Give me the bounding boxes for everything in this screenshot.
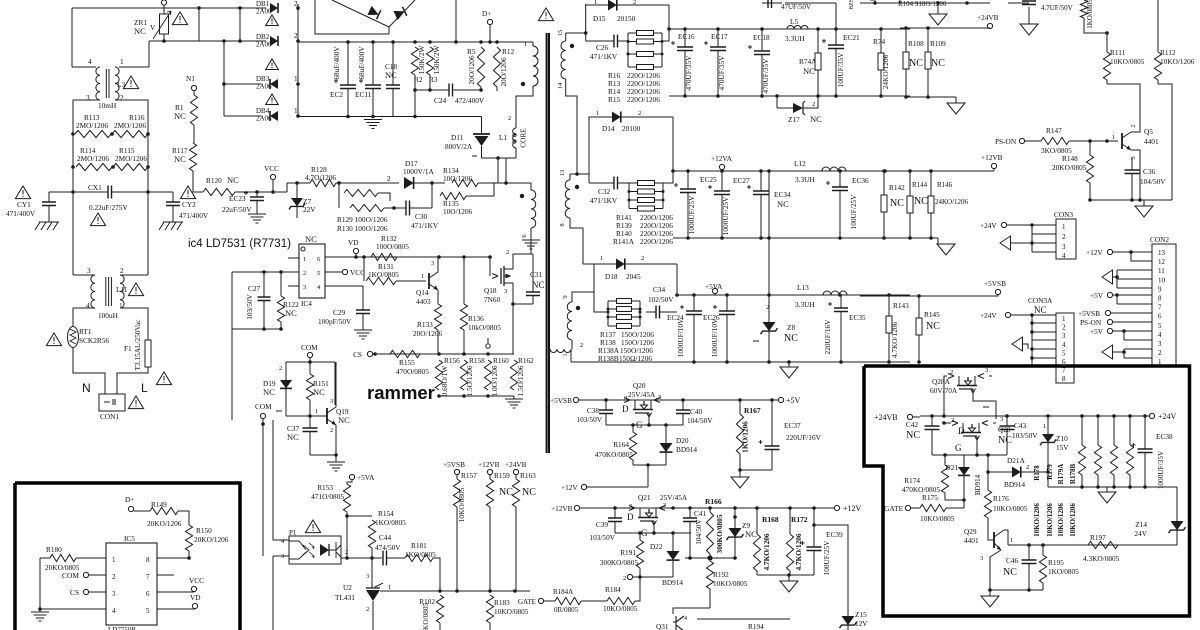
svg-text:Q28A: Q28A xyxy=(932,377,951,386)
svg-text:1000UF/25V: 1000UF/25V xyxy=(721,196,730,235)
svg-text:1: 1 xyxy=(421,273,424,280)
ground top right xyxy=(937,3,939,14)
svg-text:8: 8 xyxy=(146,556,150,564)
svg-text:2MO/1206: 2MO/1206 xyxy=(114,121,146,130)
svg-text:R112: R112 xyxy=(1160,48,1176,57)
svg-text:1: 1 xyxy=(120,57,124,66)
svg-text:+24V: +24V xyxy=(980,221,997,230)
svg-text:3.3UH: 3.3UH xyxy=(785,34,805,43)
connector CON1 xyxy=(99,394,125,411)
wire xyxy=(1090,199,1172,201)
svg-text:68uF/400V: 68uF/400V xyxy=(357,46,366,80)
svg-text:N: N xyxy=(82,381,91,395)
svg-text:2A06: 2A06 xyxy=(256,8,272,16)
svg-text:PS-ON: PS-ON xyxy=(1080,318,1102,327)
svg-text:10KO/1206: 10KO/1206 xyxy=(1069,503,1077,537)
svg-text:BD914: BD914 xyxy=(974,474,982,495)
svg-text:L: L xyxy=(141,381,148,395)
svg-text:800V/2A: 800V/2A xyxy=(445,142,473,151)
wire COM bottom xyxy=(286,415,310,417)
wire DB output bus xyxy=(297,4,299,116)
svg-text:EC16: EC16 xyxy=(678,32,695,41)
wire xyxy=(505,158,507,183)
svg-text:13: 13 xyxy=(1158,249,1166,257)
svg-text:NC: NC xyxy=(305,234,317,244)
svg-text:CON3: CON3 xyxy=(1054,210,1073,219)
svg-text:R146: R146 xyxy=(937,181,953,189)
ground Q29 xyxy=(989,590,991,596)
warning triangle P1 xyxy=(305,520,320,533)
svg-text:471/400V: 471/400V xyxy=(179,211,209,220)
svg-text:20100: 20100 xyxy=(622,124,641,133)
svg-text:20KO/1206: 20KO/1206 xyxy=(194,535,229,544)
resistor R129 xyxy=(338,183,340,193)
wire xyxy=(1122,329,1126,333)
wire xyxy=(900,27,990,29)
svg-text:1: 1 xyxy=(562,353,569,356)
svg-text:1: 1 xyxy=(596,110,599,117)
svg-text:3: 3 xyxy=(980,555,983,562)
svg-text:Q31: Q31 xyxy=(656,622,669,630)
svg-text:R191: R191 xyxy=(620,548,636,557)
wire CON3 feed xyxy=(1007,224,1056,226)
wire +5VSB feed xyxy=(860,295,994,297)
resistor R3 xyxy=(426,47,433,75)
svg-text:3: 3 xyxy=(504,288,507,295)
svg-text:EC37: EC37 xyxy=(784,421,801,430)
svg-text:R148: R148 xyxy=(1062,154,1078,163)
svg-text:L5: L5 xyxy=(790,17,798,26)
svg-text:L13: L13 xyxy=(797,283,809,292)
svg-text:R149: R149 xyxy=(151,500,167,509)
svg-text:R15: R15 xyxy=(608,95,621,104)
svg-text:470KO/0805: 470KO/0805 xyxy=(595,450,633,459)
wire +5V rectified rail xyxy=(677,294,910,296)
wire Q5 collector xyxy=(1107,84,1140,126)
wire left drop to L3 xyxy=(71,8,73,67)
wire xyxy=(1113,294,1152,296)
wire Q21 gate rail xyxy=(615,532,691,534)
svg-text:1.5O/1206: 1.5O/1206 xyxy=(465,365,474,396)
svg-text:4403: 4403 xyxy=(416,297,431,306)
svg-text:2: 2 xyxy=(120,266,124,275)
svg-text:NC: NC xyxy=(532,280,545,290)
svg-text:24V: 24V xyxy=(1134,529,1147,538)
svg-text:EC36: EC36 xyxy=(852,176,869,185)
wire R112 right leg xyxy=(1158,84,1172,200)
svg-text:R184: R184 xyxy=(605,585,621,594)
ground CY2 xyxy=(159,222,183,230)
svg-text:15V: 15V xyxy=(1056,443,1069,452)
dot L1 xyxy=(521,82,525,86)
svg-text:4.7UF/50V: 4.7UF/50V xyxy=(1041,4,1073,12)
wire xyxy=(640,576,673,578)
resistor stack R137 R138 R138A R138B xyxy=(607,301,609,326)
arrow CON3A xyxy=(1012,337,1023,351)
svg-text:+24VB: +24VB xyxy=(977,13,999,22)
wire +12V rectified rail xyxy=(673,170,910,172)
svg-text:R109: R109 xyxy=(930,39,946,48)
svg-text:1: 1 xyxy=(112,556,116,564)
svg-text:R176: R176 xyxy=(993,494,1009,503)
svg-text:3: 3 xyxy=(1000,416,1003,423)
svg-text:TL431: TL431 xyxy=(335,593,355,602)
svg-text:474/50V: 474/50V xyxy=(375,543,401,552)
resistor stack R16 R13 R14 R15 xyxy=(627,33,629,67)
svg-text:2: 2 xyxy=(1158,349,1162,357)
svg-text:470UF/35V: 470UF/35V xyxy=(684,55,693,91)
svg-text:471/1KV: 471/1KV xyxy=(411,221,439,230)
wire +12VB rail xyxy=(580,507,834,509)
svg-text:Q14: Q14 xyxy=(416,288,429,297)
svg-text:1KO/0805: 1KO/0805 xyxy=(375,518,406,527)
svg-text:EC23: EC23 xyxy=(229,194,246,203)
wire to CON1 xyxy=(73,347,105,394)
wire DC bus right corner xyxy=(455,0,457,42)
svg-text:104/50V: 104/50V xyxy=(1140,177,1166,186)
wire COM bus down xyxy=(262,424,264,556)
wire row3 lower rail xyxy=(571,361,910,363)
wire +12VB right rail xyxy=(860,170,994,172)
resistor R157 xyxy=(456,475,458,479)
wire IC4 pin3 stub xyxy=(288,285,299,287)
svg-text:+5VA: +5VA xyxy=(357,473,375,482)
svg-text:3: 3 xyxy=(985,367,988,374)
svg-text:R147: R147 xyxy=(1046,126,1062,135)
wire xyxy=(346,516,348,558)
svg-text:7: 7 xyxy=(146,573,150,581)
warning triangle top xyxy=(538,8,553,21)
svg-text:150K/2W: 150K/2W xyxy=(432,45,441,74)
svg-text:NC: NC xyxy=(263,387,275,397)
Y-capacitor CY2 xyxy=(180,186,195,199)
svg-text:7N60: 7N60 xyxy=(484,295,501,304)
ground cap xyxy=(1028,7,1030,24)
svg-text:C26: C26 xyxy=(596,43,609,52)
svg-text:5: 5 xyxy=(317,270,320,277)
svg-text:6: 6 xyxy=(1158,313,1162,321)
mosfet Q18 xyxy=(489,257,491,276)
resistor R135 xyxy=(431,183,433,196)
svg-text:CX1: CX1 xyxy=(88,183,102,192)
svg-text:3: 3 xyxy=(112,590,116,598)
svg-text:47UF/50V: 47UF/50V xyxy=(781,3,811,11)
svg-text:20O/1206: 20O/1206 xyxy=(467,55,476,85)
wire Q20 gate rail xyxy=(606,424,683,426)
svg-text:R104 910O/1206: R104 910O/1206 xyxy=(898,0,947,8)
svg-text:10KO/1206: 10KO/1206 xyxy=(1057,503,1065,537)
wire top AC rail xyxy=(72,7,266,9)
svg-text:4.7KO/1206: 4.7KO/1206 xyxy=(794,533,803,570)
wire Q18 source xyxy=(512,283,514,354)
svg-text:+5VSB: +5VSB xyxy=(1078,309,1100,318)
common-mode choke L3 xyxy=(96,67,100,100)
node +24V box xyxy=(1149,413,1154,418)
svg-text:100pF/50V: 100pF/50V xyxy=(318,317,352,326)
svg-text:2: 2 xyxy=(366,606,369,613)
svg-text:NC: NC xyxy=(285,308,297,318)
svg-text:D22: D22 xyxy=(650,542,663,551)
svg-text:R130 100O/1206: R130 100O/1206 xyxy=(337,224,388,233)
svg-text:1KO/0805: 1KO/0805 xyxy=(1048,567,1079,576)
svg-text:CORE: CORE xyxy=(519,128,528,148)
svg-text:Q21: Q21 xyxy=(638,493,651,502)
svg-text:VCC: VCC xyxy=(189,576,204,585)
svg-text:+12VB: +12VB xyxy=(478,460,500,469)
svg-text:N1: N1 xyxy=(186,74,195,83)
svg-text:CON1: CON1 xyxy=(100,412,119,421)
svg-text:100UF/35V: 100UF/35V xyxy=(836,52,845,88)
wire D21 R176 xyxy=(987,455,989,490)
wire xyxy=(860,2,990,4)
svg-text:2MO/1206: 2MO/1206 xyxy=(76,121,108,130)
svg-text:R145: R145 xyxy=(924,310,940,319)
svg-text:20150: 20150 xyxy=(617,14,636,23)
svg-text:D+: D+ xyxy=(482,9,491,18)
svg-text:Z14: Z14 xyxy=(1135,520,1147,529)
wire xyxy=(232,328,281,330)
svg-text:7: 7 xyxy=(1062,367,1066,375)
svg-text:NC: NC xyxy=(385,70,397,80)
wire xyxy=(785,2,836,4)
svg-text:4: 4 xyxy=(1062,341,1066,349)
wire xyxy=(676,264,678,295)
svg-text:LD7750R: LD7750R xyxy=(108,626,136,630)
warning triangle DB3 xyxy=(266,59,279,70)
svg-text:C34: C34 xyxy=(653,285,666,294)
svg-text:D21: D21 xyxy=(945,463,958,472)
svg-text:NC: NC xyxy=(313,387,325,397)
svg-text:D20: D20 xyxy=(676,436,689,445)
svg-text:2: 2 xyxy=(1026,464,1029,471)
svg-text:13: 13 xyxy=(559,170,566,177)
svg-text:R5: R5 xyxy=(467,47,476,56)
svg-text:CY1: CY1 xyxy=(17,200,31,209)
svg-text:2: 2 xyxy=(623,575,626,582)
svg-text:VCC: VCC xyxy=(350,268,365,277)
wire row2 lower rail xyxy=(673,237,910,239)
wire IC5 pin5 xyxy=(157,608,195,610)
svg-text:4401: 4401 xyxy=(1144,137,1159,146)
svg-text:2: 2 xyxy=(1062,233,1066,241)
svg-text:+5VSB: +5VSB xyxy=(550,396,572,405)
svg-text:103/50V: 103/50V xyxy=(245,294,254,320)
svg-text:NC: NC xyxy=(777,199,789,209)
svg-text:R143: R143 xyxy=(893,301,909,310)
svg-text:1: 1 xyxy=(315,408,318,415)
svg-text:4401: 4401 xyxy=(964,536,979,545)
svg-text:1.0O/1206: 1.0O/1206 xyxy=(490,365,499,396)
warning triangle near L3 xyxy=(123,76,138,89)
svg-text:Q29: Q29 xyxy=(964,527,977,536)
svg-text:C42: C42 xyxy=(906,420,919,429)
svg-text:EC2: EC2 xyxy=(330,90,343,99)
svg-text:R156: R156 xyxy=(444,356,460,365)
svg-text:103/50V: 103/50V xyxy=(589,533,615,542)
svg-text:RT1: RT1 xyxy=(79,327,92,336)
svg-text:20KO/0805: 20KO/0805 xyxy=(1052,163,1087,172)
resistor R151 xyxy=(309,362,311,374)
resistor R136 xyxy=(463,257,465,304)
svg-text:EC18: EC18 xyxy=(753,33,770,42)
svg-text:2: 2 xyxy=(294,31,298,40)
wire Q19 collector xyxy=(335,362,337,407)
svg-text:R181: R181 xyxy=(411,541,427,550)
svg-text:D: D xyxy=(627,512,634,522)
wire COM loop xyxy=(286,361,335,363)
ground Q21 row xyxy=(788,575,790,581)
svg-text:C38: C38 xyxy=(587,406,600,415)
svg-text:R129 100O/1206: R129 100O/1206 xyxy=(337,215,388,224)
svg-text:CS: CS xyxy=(70,588,79,597)
svg-text:CON3A: CON3A xyxy=(1028,296,1053,305)
svg-text:NC: NC xyxy=(338,415,350,425)
svg-text:220O/1206: 220O/1206 xyxy=(640,237,673,246)
node +5VA mid xyxy=(349,474,354,479)
svg-text:3: 3 xyxy=(303,284,306,291)
svg-text:EC25: EC25 xyxy=(700,175,717,184)
arrow CON2 b xyxy=(1102,345,1113,359)
svg-text:100UF/25V: 100UF/25V xyxy=(849,194,858,230)
node +12V left of box xyxy=(826,507,831,509)
svg-text:2: 2 xyxy=(1062,324,1066,332)
svg-text:R174: R174 xyxy=(904,476,920,485)
svg-text:1000UF/10V: 1000UF/10V xyxy=(710,318,719,357)
svg-text:C24: C24 xyxy=(434,96,447,105)
svg-text:9: 9 xyxy=(562,295,569,298)
warning triangle DB4 xyxy=(266,94,279,105)
svg-text:EC11: EC11 xyxy=(355,90,372,99)
svg-text:3: 3 xyxy=(87,266,91,275)
svg-text:R136: R136 xyxy=(468,314,484,323)
svg-text:8: 8 xyxy=(1062,375,1066,383)
ground Q19 xyxy=(335,455,337,462)
wire xyxy=(72,134,74,192)
svg-text:NC: NC xyxy=(134,26,146,36)
svg-text:BD914: BD914 xyxy=(676,445,697,454)
svg-text:L11: L11 xyxy=(116,285,128,294)
svg-text:+5V: +5V xyxy=(1090,327,1104,336)
svg-text:300KO/0805: 300KO/0805 xyxy=(600,558,638,567)
svg-text:471/1KV: 471/1KV xyxy=(590,196,618,205)
IC IC4 body xyxy=(299,244,325,298)
resistor R2 xyxy=(411,47,418,75)
svg-text:D+: D+ xyxy=(125,495,134,504)
transistor Q14 xyxy=(428,273,430,289)
svg-text:EC39: EC39 xyxy=(826,530,843,539)
thermistor RT1 xyxy=(46,333,61,346)
ground C29 xyxy=(354,330,372,339)
svg-text:C36: C36 xyxy=(1143,167,1156,176)
wire L3 pin3 down xyxy=(73,100,100,134)
svg-text:1000UF/35V: 1000UF/35V xyxy=(1156,450,1165,489)
svg-text:5: 5 xyxy=(1062,349,1066,357)
wire U2 ref rail xyxy=(380,590,530,592)
wire EC34 Z8 bus xyxy=(768,171,770,295)
svg-text:R168: R168 xyxy=(762,515,779,524)
svg-text:R12: R12 xyxy=(502,47,515,56)
svg-text:4.7KO/1206: 4.7KO/1206 xyxy=(890,322,899,359)
svg-text:2: 2 xyxy=(112,573,116,581)
arrow CON3 xyxy=(1000,236,1011,250)
svg-text:NC: NC xyxy=(890,198,904,209)
transformer T1 core xyxy=(547,33,549,453)
standby controller outline box xyxy=(15,483,240,630)
svg-text:+12V: +12V xyxy=(1086,248,1103,257)
svg-text:6: 6 xyxy=(146,590,150,598)
warning triangle CON1 xyxy=(128,396,143,409)
svg-text:3: 3 xyxy=(86,93,90,102)
svg-text:R183: R183 xyxy=(494,598,510,607)
wire xyxy=(633,464,666,466)
svg-text:PS-ON: PS-ON xyxy=(995,137,1017,146)
svg-text:300KO/0805: 300KO/0805 xyxy=(715,514,724,553)
svg-text:NC: NC xyxy=(522,487,536,498)
svg-text:1.5O/1206: 1.5O/1206 xyxy=(516,365,525,396)
svg-text:+5V: +5V xyxy=(1090,291,1104,300)
svg-text:2: 2 xyxy=(279,365,282,372)
wire snubber to primary xyxy=(497,158,499,183)
svg-text:4: 4 xyxy=(1062,252,1066,260)
svg-text:NC: NC xyxy=(998,435,1012,446)
svg-text:CON2: CON2 xyxy=(1150,235,1169,244)
warning triangle near ZR1 xyxy=(172,12,187,25)
svg-text:471/400V: 471/400V xyxy=(6,209,36,218)
svg-text:GATE: GATE xyxy=(518,598,536,606)
svg-text:1: 1 xyxy=(524,41,527,48)
svg-text:R153: R153 xyxy=(317,483,333,492)
inductor L11 common mode choke xyxy=(72,192,74,275)
svg-text:3.3UH: 3.3UH xyxy=(795,300,815,309)
svg-text:10KO/1206: 10KO/1206 xyxy=(1160,57,1195,66)
wire to Z15 xyxy=(812,523,816,527)
wire feedback bus xyxy=(231,272,233,420)
wire xyxy=(1116,270,1118,288)
arrow CON2 a xyxy=(1102,270,1113,284)
svg-text:R159: R159 xyxy=(494,471,510,480)
svg-text:CY2: CY2 xyxy=(182,200,196,209)
svg-text:EC38: EC38 xyxy=(1156,432,1173,441)
transformer T1 primary lower winding xyxy=(531,190,536,228)
svg-text:C46: C46 xyxy=(1006,556,1019,565)
ground primary xyxy=(522,240,540,249)
svg-text:C31: C31 xyxy=(530,270,543,279)
svg-text:100O/0805: 100O/0805 xyxy=(376,242,409,251)
wire right drop to L3 xyxy=(148,41,150,67)
svg-text:3: 3 xyxy=(1062,332,1066,340)
wire row1 lower rail xyxy=(669,95,910,97)
svg-text:2: 2 xyxy=(580,342,583,349)
svg-text:R144: R144 xyxy=(912,181,928,189)
wire xyxy=(516,86,533,128)
svg-text:4: 4 xyxy=(112,607,116,615)
svg-text:1: 1 xyxy=(1062,223,1066,231)
svg-text:IC5: IC5 xyxy=(124,534,135,543)
wire xyxy=(685,557,735,559)
svg-text:R142: R142 xyxy=(889,183,905,192)
svg-text:Q20: Q20 xyxy=(633,381,646,390)
svg-text:D21A: D21A xyxy=(1007,456,1026,465)
svg-text:2: 2 xyxy=(638,110,641,117)
svg-text:D: D xyxy=(958,426,965,436)
svg-text:EC34: EC34 xyxy=(774,190,791,199)
svg-text:R160: R160 xyxy=(493,356,509,365)
svg-text:NC: NC xyxy=(174,154,186,164)
svg-text:472/400V: 472/400V xyxy=(455,96,485,105)
ground IC5 xyxy=(39,609,41,612)
svg-text:3: 3 xyxy=(330,398,333,405)
wire +5V rectified rail xyxy=(669,28,910,30)
